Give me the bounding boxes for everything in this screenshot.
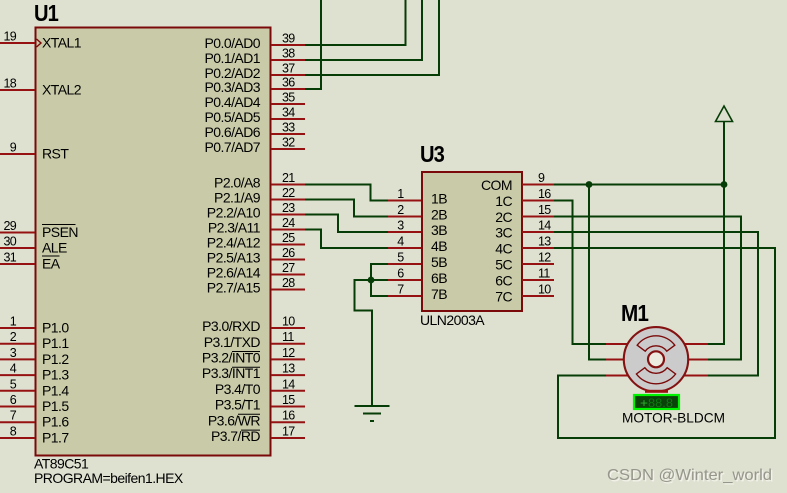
U1 pin 13 P3.3/INT1: [202, 362, 305, 382]
U1 pin 24 P2.3/A11: [208, 216, 305, 236]
svg-text:U1: U1: [34, 0, 59, 26]
U1 pin 27 P2.6/A14: [207, 261, 305, 281]
U3 pin 10 7C: [495, 283, 554, 305]
svg-text:XTAL2: XTAL2: [42, 82, 82, 98]
motor M1 pin stubs: [606, 344, 708, 376]
U1 pin 12 P3.2/INT0: [202, 346, 305, 366]
svg-text:P1.7: P1.7: [42, 430, 69, 446]
svg-text:2: 2: [397, 203, 404, 217]
svg-text:10: 10: [282, 315, 295, 329]
U1 pin 32 P0.7/AD7: [204, 136, 305, 156]
svg-text:5: 5: [10, 377, 17, 391]
svg-text:3B: 3B: [431, 222, 447, 238]
motor lower winding arc: [636, 368, 675, 384]
svg-text:P0.3/AD3: P0.3/AD3: [204, 79, 260, 95]
svg-text:27: 27: [282, 261, 295, 275]
U1 pin 22 P2.1/A9: [214, 186, 305, 206]
svg-text:P0.7/AD7: P0.7/AD7: [204, 139, 260, 155]
U3 pin 11 6C: [495, 267, 554, 289]
svg-text:4C: 4C: [495, 241, 512, 257]
U1 pin 31 EA: [0, 251, 61, 272]
svg-text:88.8: 88.8: [648, 398, 673, 410]
svg-text:39: 39: [282, 32, 295, 46]
svg-text:P1.3: P1.3: [42, 367, 69, 383]
svg-text:P2.3/A11: P2.3/A11: [208, 220, 261, 236]
wire U3 5B-6B-7B common tie: [371, 264, 388, 296]
svg-text:12: 12: [538, 251, 551, 265]
svg-text:2: 2: [10, 330, 17, 344]
svg-text:4: 4: [10, 362, 17, 376]
wire U3 4C loop to motor left-bottom: [554, 248, 775, 438]
U1 pin 38 P0.1/AD1: [204, 47, 305, 67]
svg-text:P1.4: P1.4: [42, 382, 69, 398]
svg-text:P0.5/AD5: P0.5/AD5: [204, 109, 260, 125]
wire P2.1/A9 pin22 to U3 2B: [305, 200, 388, 217]
motor speed display: [634, 395, 679, 410]
svg-text:37: 37: [282, 62, 295, 76]
U1 pin 4 P1.3: [0, 362, 69, 383]
svg-text:3C: 3C: [495, 225, 512, 241]
svg-text:1: 1: [10, 315, 17, 329]
motor upper winding arc: [637, 336, 675, 351]
svg-text:34: 34: [282, 106, 295, 120]
U1 pin 8 P1.7: [0, 425, 69, 446]
svg-text:P1.5: P1.5: [42, 398, 69, 414]
svg-text:RST: RST: [42, 146, 69, 162]
svg-text:P2.1/A9: P2.1/A9: [214, 190, 261, 206]
svg-text:6C: 6C: [495, 273, 512, 289]
svg-text:26: 26: [282, 246, 295, 260]
svg-text:PSEN: PSEN: [42, 224, 78, 240]
svg-text:11: 11: [282, 330, 294, 344]
svg-text:14: 14: [282, 377, 295, 391]
svg-text:P0.1/AD1: P0.1/AD1: [204, 50, 260, 66]
svg-text:2B: 2B: [431, 206, 447, 222]
U1 pin 37 P0.2/AD2: [204, 62, 305, 82]
U3 pin 1 1B: [388, 187, 447, 206]
svg-text:38: 38: [282, 47, 295, 61]
svg-text:19: 19: [3, 30, 16, 44]
svg-text:1: 1: [397, 187, 404, 201]
svg-text:P2.2/A10: P2.2/A10: [207, 205, 261, 221]
U1 pin 2 P1.1: [0, 330, 69, 351]
svg-text:P1.6: P1.6: [42, 414, 69, 430]
U3 pin 6 6B: [388, 267, 447, 286]
U3 pin 13 4C: [495, 235, 554, 257]
U1 pin 39 P0.0/AD0: [204, 32, 305, 52]
svg-text:P3.4/T0: P3.4/T0: [215, 381, 261, 397]
svg-text:6: 6: [397, 267, 404, 281]
U1 pin 1 P1.0: [0, 315, 69, 336]
svg-text:5: 5: [397, 251, 404, 265]
svg-text:1B: 1B: [431, 190, 447, 206]
U1 pin 23 P2.2/A10: [207, 201, 305, 221]
svg-text:P2.4/A12: P2.4/A12: [207, 235, 261, 251]
U3 pin 15 2C: [495, 203, 554, 225]
U1 pin 26 P2.5/A13: [207, 246, 305, 266]
U3 pin 5 5B: [388, 251, 447, 270]
wire power column to motor right-top: [708, 122, 724, 345]
svg-text:35: 35: [282, 91, 295, 105]
junction COM / left motor branch: [586, 181, 593, 188]
wire U3 1C to motor left-top: [554, 201, 606, 345]
wire P0.2/AD2 pin37 to top: [305, 0, 439, 75]
wire P0.3/AD3 pin36 to top: [305, 0, 321, 89]
svg-text:14: 14: [538, 219, 551, 233]
svg-text:32: 32: [282, 136, 295, 150]
svg-text:8: 8: [10, 425, 17, 439]
svg-text:24: 24: [282, 216, 295, 230]
svg-text:3: 3: [397, 219, 404, 233]
svg-text:9: 9: [538, 171, 545, 185]
svg-text:COM: COM: [481, 177, 512, 193]
svg-text:XTAL1: XTAL1: [42, 35, 82, 51]
svg-text:P3.1/TXD: P3.1/TXD: [204, 334, 261, 350]
U1 pin 5 P1.4: [0, 377, 69, 398]
svg-text:P0.0/AD0: P0.0/AD0: [204, 35, 260, 51]
ground symbol: [355, 406, 390, 421]
svg-text:23: 23: [282, 201, 295, 215]
svg-text:1C: 1C: [495, 193, 512, 209]
svg-text:CSDN @Winter_world: CSDN @Winter_world: [607, 467, 772, 484]
U3 pin 3 3B: [388, 219, 447, 238]
motor bottom terminal: [645, 390, 668, 393]
svg-text:P3.5/T1: P3.5/T1: [215, 397, 261, 413]
U1 pin 25 P2.4/A12: [207, 231, 305, 251]
svg-text:16: 16: [538, 187, 551, 201]
junction at 6B tie: [368, 277, 375, 284]
svg-text:11: 11: [538, 267, 550, 281]
U1 pin 7 P1.6: [0, 409, 69, 430]
svg-text:7C: 7C: [495, 289, 512, 305]
svg-text:5B: 5B: [431, 254, 447, 270]
U3 pin 4 4B: [388, 235, 447, 254]
U3 pin 9 COM: [481, 171, 554, 193]
wire U3 2C to motor right-middle: [554, 217, 741, 360]
U1 pin 14 P3.4/T0: [215, 377, 305, 397]
svg-text:5C: 5C: [495, 257, 512, 273]
U1 pin 19 XTAL1: [0, 30, 82, 51]
svg-text:30: 30: [3, 235, 16, 249]
junction COM / power column: [721, 181, 728, 188]
svg-text:P0.4/AD4: P0.4/AD4: [204, 94, 260, 110]
svg-text:7B: 7B: [431, 286, 447, 302]
U1 pin 33 P0.6/AD6: [204, 121, 305, 141]
U3 pin 2 2B: [388, 203, 447, 222]
U1 pin 36 P0.3/AD3: [204, 76, 305, 96]
U1 pin 10 P3.0/RXD: [202, 315, 305, 335]
svg-text:28: 28: [282, 276, 295, 290]
svg-text:P2.6/A14: P2.6/A14: [207, 265, 261, 281]
wire P2.3/A11 pin24 to U3 4B: [305, 230, 388, 249]
wire P2.2/A10 pin23 to U3 3B: [305, 215, 388, 233]
svg-text:36: 36: [282, 76, 295, 90]
svg-text:16: 16: [282, 409, 295, 423]
svg-text:12: 12: [282, 346, 295, 360]
U1 pin 21 P2.0/A8: [214, 171, 305, 191]
motor shaft hole: [648, 351, 664, 367]
svg-text:P2.5/A13: P2.5/A13: [207, 250, 261, 266]
svg-text:P0.6/AD6: P0.6/AD6: [204, 124, 260, 140]
svg-text:ALE: ALE: [42, 240, 67, 256]
svg-text:13: 13: [282, 362, 295, 376]
svg-text:21: 21: [282, 171, 295, 185]
svg-text:15: 15: [538, 203, 551, 217]
svg-text:9: 9: [10, 141, 17, 155]
U3 pin 14 3C: [495, 219, 554, 241]
svg-text:6: 6: [10, 393, 17, 407]
svg-text:18: 18: [3, 77, 16, 91]
svg-text:31: 31: [3, 251, 16, 265]
svg-text:P2.7/A15: P2.7/A15: [207, 280, 261, 296]
microcontroller U1 body: [36, 28, 271, 456]
svg-text:25: 25: [282, 231, 295, 245]
svg-text:3: 3: [10, 346, 17, 360]
svg-text:2C: 2C: [495, 209, 512, 225]
motor M1 body: [624, 327, 688, 391]
svg-text:P3.0/RXD: P3.0/RXD: [202, 318, 260, 334]
svg-text:P1.1: P1.1: [42, 335, 69, 351]
svg-text:EA: EA: [42, 256, 61, 272]
svg-text:15: 15: [282, 393, 295, 407]
svg-text:U3: U3: [420, 141, 444, 167]
wire P0.0/AD0 pin39 to top: [305, 0, 406, 45]
svg-text:10: 10: [538, 283, 551, 297]
svg-text:6B: 6B: [431, 270, 447, 286]
svg-text:M1: M1: [621, 300, 649, 326]
U1 pin 18 XTAL2: [0, 77, 82, 98]
wire 6B to tie: [371, 279, 388, 281]
watermark CSDN @Winter_world: [607, 467, 774, 486]
U3 pin 7 7B: [388, 283, 447, 302]
U1 pin 30 ALE: [0, 235, 67, 256]
U1 pin 15 P3.5/T1: [215, 393, 305, 413]
wire COM branch to motor left-middle: [589, 185, 606, 360]
U1 pin 9 RST: [0, 141, 69, 162]
svg-text:29: 29: [3, 219, 16, 233]
U1 pin 16 P3.6/WR: [208, 409, 305, 429]
wire P2.0/A8 pin21 to U3 1B: [305, 185, 388, 201]
U3 pin 12 5C: [495, 251, 554, 273]
svg-text:7: 7: [10, 409, 17, 423]
svg-text:17: 17: [282, 425, 295, 439]
svg-text:ULN2003A: ULN2003A: [420, 312, 485, 328]
svg-text:7: 7: [397, 283, 404, 297]
U1 pin 3 P1.2: [0, 346, 69, 367]
svg-text:P1.0: P1.0: [42, 320, 69, 336]
U1 pin 11 P3.1/TXD: [204, 330, 305, 350]
svg-text:MOTOR-BLDCM: MOTOR-BLDCM: [622, 410, 725, 426]
U1 pin 34 P0.5/AD5: [204, 106, 305, 126]
svg-text:P2.0/A8: P2.0/A8: [214, 175, 261, 191]
wire COM rail to power: [554, 184, 724, 186]
svg-text:13: 13: [538, 235, 551, 249]
svg-text:22: 22: [282, 186, 295, 200]
svg-text:PROGRAM=beifen1.HEX: PROGRAM=beifen1.HEX: [34, 470, 184, 486]
svg-text:4: 4: [397, 235, 404, 249]
power symbol (arrow): [716, 106, 733, 122]
svg-text:4B: 4B: [431, 238, 447, 254]
svg-text:P1.2: P1.2: [42, 351, 69, 367]
wire P0.1/AD1 pin38 to top: [305, 0, 422, 60]
wire tie to ground: [355, 280, 373, 406]
U1 pin 6 P1.5: [0, 393, 69, 414]
wire U3 3C to motor right-bottom: [554, 232, 758, 376]
driver U3 body: [422, 172, 522, 311]
U1 pin 28 P2.7/A15: [207, 276, 305, 296]
svg-text:33: 33: [282, 121, 295, 135]
U3 pin 16 1C: [495, 187, 554, 209]
U1 pin 29 PSEN: [0, 219, 78, 240]
U1 pin 17 P3.7/RD: [211, 425, 305, 445]
U1 pin 35 P0.4/AD4: [204, 91, 305, 111]
